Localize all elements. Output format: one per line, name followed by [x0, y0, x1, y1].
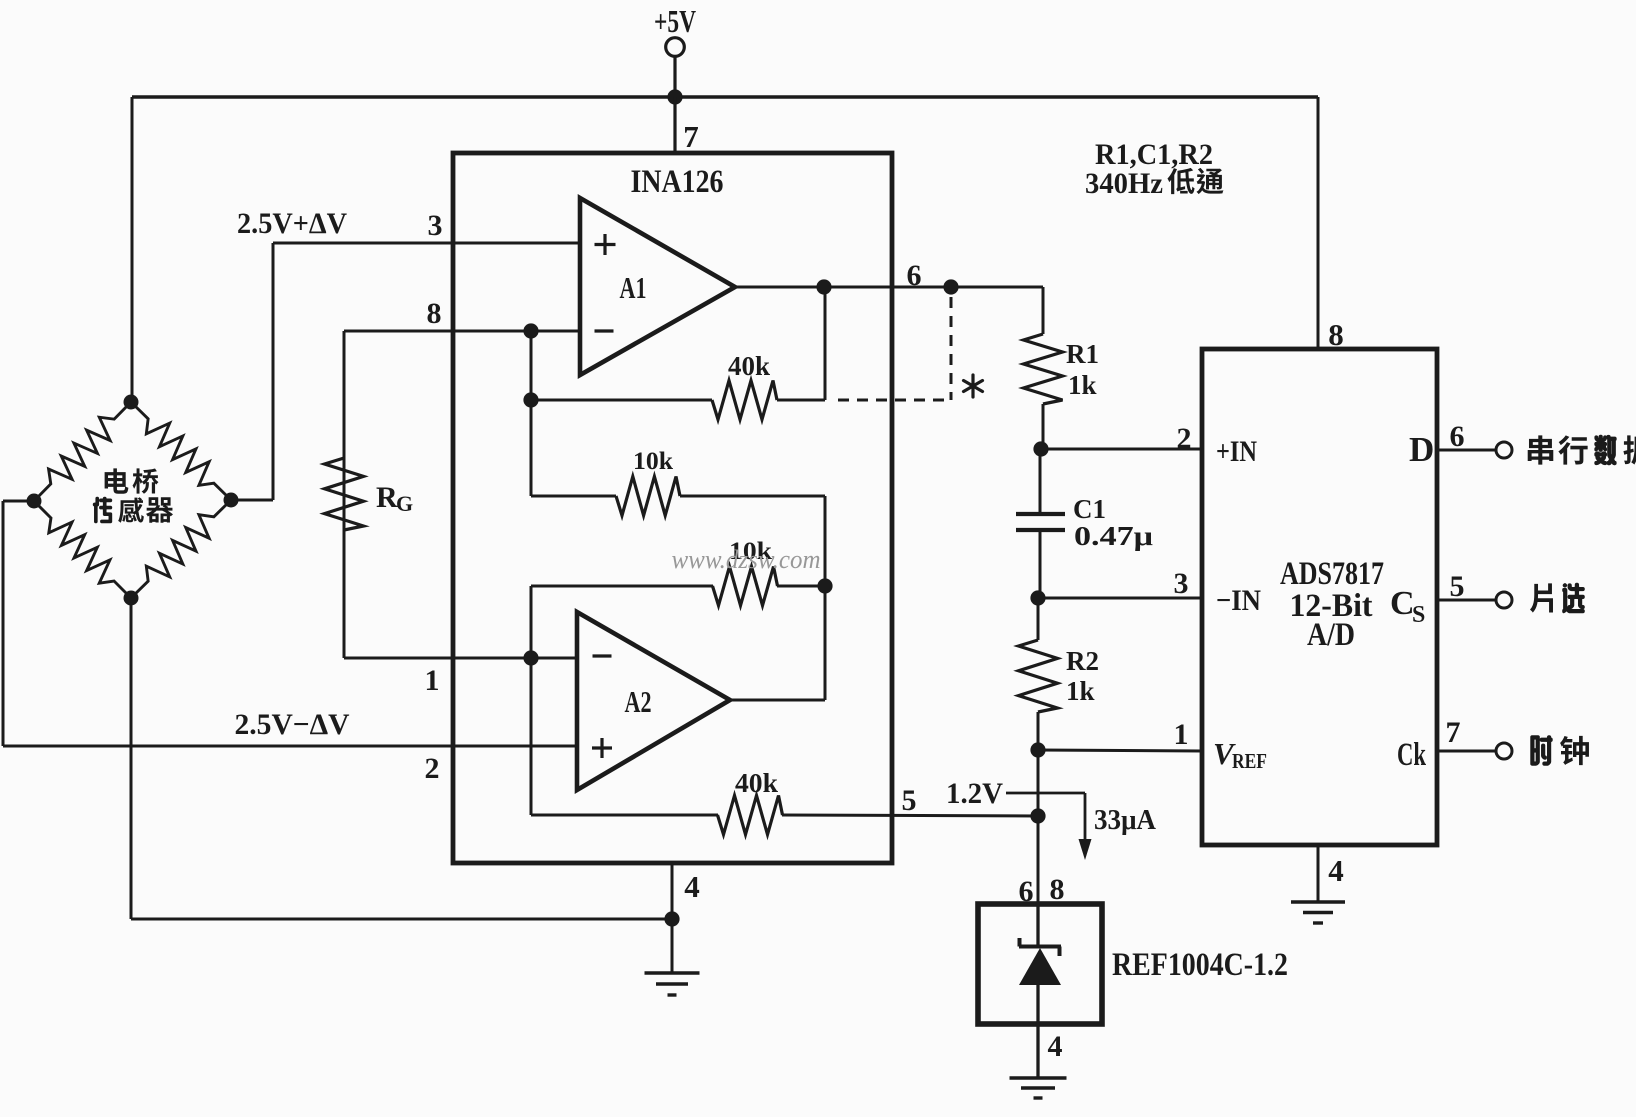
svg-text:REF1004C-1.2: REF1004C-1.2 — [1112, 947, 1288, 983]
svg-text:40k: 40k — [728, 351, 770, 381]
svg-text:+5V: +5V — [654, 3, 696, 39]
svg-text:G: G — [396, 491, 413, 516]
svg-text:INA126: INA126 — [631, 164, 724, 200]
svg-text:ADS7817: ADS7817 — [1280, 556, 1384, 592]
svg-text:3: 3 — [1174, 567, 1189, 600]
svg-text:REF: REF — [1232, 749, 1267, 773]
svg-text:C1: C1 — [1073, 494, 1106, 524]
svg-text:R1: R1 — [1066, 339, 1099, 369]
svg-text:7: 7 — [1446, 716, 1461, 749]
svg-text:2.5V−ΔV: 2.5V−ΔV — [235, 708, 350, 741]
svg-text:40k: 40k — [735, 768, 778, 798]
svg-text:2: 2 — [425, 752, 440, 785]
svg-text:8: 8 — [1050, 873, 1065, 906]
svg-text:7: 7 — [683, 119, 699, 154]
svg-text:D: D — [1409, 430, 1434, 469]
svg-text:Ck: Ck — [1397, 737, 1426, 773]
svg-text:3: 3 — [428, 209, 443, 242]
svg-text:6: 6 — [1450, 420, 1465, 453]
svg-text:4: 4 — [1328, 853, 1344, 888]
svg-text:1.2V: 1.2V — [946, 777, 1003, 810]
svg-text:1: 1 — [1174, 718, 1189, 751]
svg-text:−IN: −IN — [1216, 584, 1261, 617]
svg-text:R: R — [376, 481, 398, 514]
svg-text:10k: 10k — [633, 448, 673, 475]
svg-text:C: C — [1390, 585, 1415, 622]
svg-text:2: 2 — [1177, 422, 1192, 455]
svg-text:5: 5 — [1450, 570, 1465, 603]
svg-text:8: 8 — [427, 297, 442, 330]
svg-text:S: S — [1412, 602, 1425, 628]
svg-text:1: 1 — [425, 664, 440, 697]
svg-text:1k: 1k — [1068, 370, 1097, 400]
svg-text:+IN: +IN — [1216, 435, 1257, 468]
svg-text:0.47μ: 0.47μ — [1074, 521, 1153, 551]
svg-text:2.5V+ΔV: 2.5V+ΔV — [237, 207, 347, 240]
svg-text:1k: 1k — [1066, 676, 1095, 706]
svg-text:4: 4 — [684, 869, 700, 904]
svg-text:5: 5 — [902, 784, 917, 817]
svg-text:A1: A1 — [620, 270, 647, 305]
svg-text:A/D: A/D — [1307, 617, 1355, 653]
svg-text:6: 6 — [907, 259, 922, 292]
svg-text:4: 4 — [1048, 1030, 1063, 1063]
svg-text:R2: R2 — [1066, 646, 1099, 676]
svg-text:33μA: 33μA — [1094, 804, 1156, 836]
svg-text:A2: A2 — [625, 684, 652, 719]
svg-text:www.dzsw.com: www.dzsw.com — [672, 545, 821, 574]
svg-text:340Hz: 340Hz — [1085, 167, 1163, 200]
